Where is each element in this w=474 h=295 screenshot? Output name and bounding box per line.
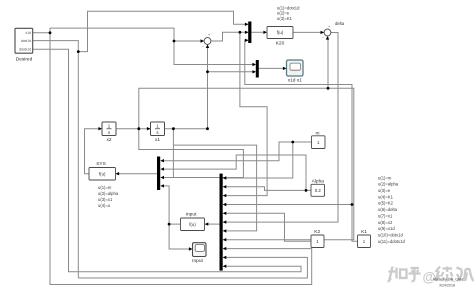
svg-text:Desired: Desired — [16, 57, 33, 63]
arrowheads into big mux inputs u1-u11 — [223, 176, 227, 179]
svg-text:SYS: SYS — [96, 161, 106, 167]
junction node alpha branch — [305, 189, 308, 192]
junction node m branch — [291, 141, 294, 144]
arrowhead into SYS mux input1 — [160, 159, 164, 162]
arrowhead into K20 mux input1 — [245, 23, 249, 26]
wire x1 output to sum1 bottom input — [165, 45, 208, 129]
scope x1d x1 — [287, 60, 304, 76]
wire x2 up to delta sum bottom input and to big mux u8 — [139, 88, 354, 239]
integrator x2 — [102, 122, 116, 136]
wire x1d feedback loop to big mux u9 — [50, 33, 312, 285]
integrator x1 — [151, 122, 165, 136]
junction node x1 to scope mux — [206, 70, 209, 73]
arrowhead into SYS mux input3 — [160, 176, 164, 179]
arrowhead into scope mux input2 — [252, 70, 256, 73]
arrowhead into SYS mux input2 — [160, 167, 164, 170]
arrowhead into Input scope — [189, 247, 193, 250]
svg-text:u(7)=x1: u(7)=x1 — [378, 213, 393, 218]
wire dotx1d from Desired down — [33, 41, 78, 278]
svg-text:K2: K2 — [314, 229, 320, 235]
arrowhead into sum1 left — [201, 39, 205, 42]
arrowhead into delta left — [321, 31, 325, 34]
svg-text:Alpha: Alpha — [312, 179, 325, 185]
junction node x1 output — [172, 127, 175, 130]
wire x1d from Desired to sum1 and scope mux — [33, 28, 255, 64]
mux M3 (SYS inputs) — [157, 157, 160, 191]
wire x1 branch to scope mux input 2 — [208, 71, 256, 73]
wire dotx1d branch up to K20 mux input 1 — [78, 11, 248, 51]
svg-text:−: − — [322, 36, 324, 40]
svg-text:Made by GH_CAN: Made by GH_CAN — [433, 277, 463, 281]
mux M4 (big input mux) — [220, 174, 223, 271]
fraction bar of integrator x1 — [155, 128, 160, 130]
svg-text:u(11)=ddotx1d: u(11)=ddotx1d — [378, 239, 405, 244]
arrowhead into x2 — [98, 127, 102, 130]
svg-text:u(2)=alpha: u(2)=alpha — [378, 182, 399, 187]
wire alpha branch to SYS mux input 2 — [161, 155, 306, 190]
glyph 知 — [388, 267, 407, 283]
arrowhead into K20 mux input2 — [245, 31, 249, 34]
wire x2 to x1 — [116, 128, 150, 130]
arrowhead into SYS f(u) right — [116, 172, 120, 175]
svg-text:Input: Input — [186, 212, 197, 218]
wire x1 branch down to SYS mux u3 and big mux u7 — [172, 129, 174, 178]
junction node x1d to sum1 — [173, 40, 176, 43]
svg-text:u(4)=K1: u(4)=K1 — [378, 194, 394, 199]
wire m branch to big mux u1 — [224, 142, 293, 178]
svg-text:m: m — [316, 131, 320, 136]
glyph 练 — [435, 267, 453, 282]
fraction bar of integrator x2 — [107, 128, 112, 130]
svg-text:f(u): f(u) — [99, 172, 106, 177]
sum S1 (e = x1d - x1) — [204, 38, 211, 45]
svg-text:x1d x1: x1d x1 — [288, 78, 302, 84]
svg-text:delta: delta — [335, 21, 345, 26]
wire K1 branch to big mux u4 — [224, 204, 353, 206]
wire e branch down to big mux u3 — [224, 32, 268, 195]
wire Input f(u) branch down to Input scope — [169, 224, 191, 249]
wire e from sum1 output to K20 mux input 2 — [211, 32, 248, 41]
svg-text:−: − — [202, 45, 204, 49]
svg-text:u(4)=u: u(4)=u — [98, 203, 111, 208]
constant K1 — [358, 235, 371, 248]
svg-text:u(6)=delta: u(6)=delta — [378, 207, 398, 212]
arrowhead into scope mux input1 — [252, 63, 256, 66]
sum S2 (delta) — [324, 29, 331, 36]
wire dotx1d feedback loop to big mux u10 — [78, 257, 307, 278]
junction node x2 output — [137, 127, 140, 130]
junction node on dotx1d branch — [77, 50, 80, 53]
wire delta from delta sum to big mux u6 — [224, 33, 339, 223]
mux M1 (K20 inputs) — [248, 22, 251, 44]
scope Input — [193, 243, 207, 257]
svg-text:x2: x2 — [106, 137, 111, 143]
svg-text:3/24/2018: 3/24/2018 — [439, 283, 455, 287]
subsystem Desired — [15, 28, 33, 53]
junction node K1 branch — [351, 203, 354, 206]
svg-text:+: + — [328, 25, 330, 29]
watermark Zhihu 知乎 @练狐 (drawn strokes, no CJK font available) — [388, 267, 474, 283]
svg-text:x1d: x1d — [26, 31, 32, 35]
function block K20 f(u) — [267, 27, 293, 39]
junction node u branch — [168, 223, 171, 226]
glyph 狐 — [457, 268, 474, 282]
svg-text:+: + — [208, 33, 210, 37]
svg-text:u(3)=x1: u(3)=x1 — [98, 197, 113, 202]
wire SYS f(u) output to integrator x2 — [85, 129, 102, 174]
wire x1d branch to sum1 left input — [174, 40, 204, 42]
constant m — [312, 136, 326, 149]
svg-text:0.2: 0.2 — [315, 188, 322, 193]
wire K2 to big mux u5 — [224, 213, 312, 241]
arrowhead into sum1 bottom — [206, 44, 209, 48]
svg-text:Input: Input — [192, 258, 203, 264]
svg-text:u(3)=K1: u(3)=K1 — [277, 16, 293, 21]
junction node x2 to delta — [327, 87, 330, 90]
function block SYS f(u) — [89, 168, 116, 181]
wire big mux output to Input f(u) — [206, 223, 220, 225]
arrowhead into x1 — [147, 127, 151, 130]
wire m to SYS mux input 1 — [161, 142, 311, 161]
wire K20 mux output to K20 f(u) — [252, 31, 267, 33]
arrowhead into K20 f(u) — [263, 31, 267, 34]
junction node e branch — [239, 31, 242, 34]
svg-text:f(u): f(u) — [189, 222, 196, 227]
svg-text:u(8)=x2: u(8)=x2 — [378, 220, 393, 225]
svg-text:u(5)=K2: u(5)=K2 — [378, 201, 394, 206]
arrowhead into SYS mux input4 — [160, 184, 164, 187]
svg-text:x1: x1 — [155, 137, 160, 143]
junction node on x1d at branch down — [49, 31, 52, 34]
junction node x1 output to sum vertical — [206, 127, 209, 130]
wire K1 up to K20 mux input 3 — [245, 40, 358, 241]
wire K20 f(u) output to delta sum — [293, 31, 323, 33]
wire Input f(u) output to SYS mux input 4 — [161, 186, 180, 224]
mux M2 (scope inputs) — [256, 60, 259, 78]
svg-text:K1: K1 — [361, 229, 367, 235]
glyph 乎 — [409, 268, 421, 281]
arrowhead into delta bottom — [326, 36, 329, 40]
wire x2 branch up into delta bottom — [327, 37, 329, 89]
svg-text:dotx1d: dotx1d — [21, 39, 31, 43]
arrowhead into K20 mux input3 — [245, 39, 249, 42]
svg-text:u(2)=alpha: u(2)=alpha — [98, 191, 119, 196]
svg-text:ddotx1d: ddotx1d — [19, 48, 31, 52]
wire x1 branch to big mux u7 — [173, 145, 256, 231]
svg-text:u(3)=e: u(3)=e — [378, 188, 391, 193]
wire alpha to big mux u2 — [224, 187, 312, 191]
wire SYS mux output to SYS f(u) — [117, 173, 158, 175]
constant Alpha — [311, 184, 325, 196]
svg-text:u(1)=m: u(1)=m — [378, 175, 392, 180]
wire scope mux output to scope — [259, 67, 286, 69]
svg-text:K20: K20 — [276, 41, 285, 47]
constant K2 — [311, 235, 324, 248]
wire ddotx1d from Desired to big mux u11 — [33, 49, 301, 271]
function block Input f(u) — [181, 218, 205, 231]
svg-text:u(9)=x1d: u(9)=x1d — [378, 226, 395, 231]
svg-text:u(10)=dotx1d: u(10)=dotx1d — [378, 232, 403, 237]
wire x2 branch down to SYS mux input 3 line — [139, 129, 244, 178]
arrowhead into scope — [283, 67, 287, 70]
wire x1 branch into SYS mux input 3 — [161, 177, 243, 179]
svg-text:f(u): f(u) — [277, 30, 284, 35]
svg-text:u(1)=m: u(1)=m — [98, 185, 112, 190]
arrowhead into Input f(u) right — [205, 222, 209, 225]
